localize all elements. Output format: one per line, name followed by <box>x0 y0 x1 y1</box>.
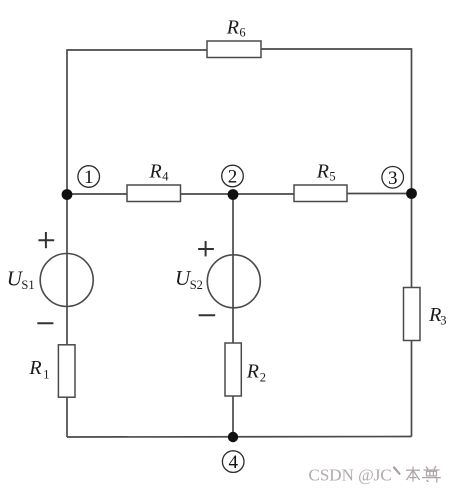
resistor R4 <box>127 160 181 201</box>
junction node 3 <box>406 188 417 199</box>
watermark CSDN @JC丶本尊 <box>309 466 392 485</box>
svg-text:S1: S1 <box>21 278 34 292</box>
junction node 4 <box>228 432 238 442</box>
wire middle bus R4-node2 <box>181 193 295 195</box>
resistor R5 <box>294 160 347 201</box>
svg-text:CSDN @JC: CSDN @JC <box>309 466 392 485</box>
wire left branch node1 to bottom <box>66 194 68 437</box>
junction node 2 <box>228 189 239 200</box>
resistor R1 <box>28 345 75 397</box>
wire middle bus R5-node3 <box>347 193 412 195</box>
svg-text:4: 4 <box>162 170 169 184</box>
resistor R3 <box>404 288 447 341</box>
svg-text:2: 2 <box>260 370 266 384</box>
node 3 label <box>382 167 404 189</box>
wire top right from R6 to node 3 <box>261 49 412 194</box>
svg-text:1: 1 <box>43 367 49 381</box>
US2 plus <box>198 241 214 256</box>
wire top from node 1 up and across to R6 <box>67 50 207 194</box>
junction node 1 <box>62 189 73 200</box>
svg-text:R: R <box>149 160 162 182</box>
US1 minus <box>37 322 53 324</box>
resistor R6 <box>207 16 261 57</box>
US1 plus <box>38 232 54 248</box>
svg-text:3: 3 <box>440 314 446 328</box>
node 4 label <box>222 451 244 473</box>
US2 minus <box>199 314 216 316</box>
voltage source US1 <box>7 254 93 307</box>
svg-text:1: 1 <box>84 167 94 188</box>
wire bottom <box>67 436 412 439</box>
svg-text:5: 5 <box>329 170 335 184</box>
svg-text:R: R <box>316 160 329 182</box>
svg-text:2: 2 <box>228 167 238 188</box>
node 1 label <box>78 166 100 188</box>
svg-text:6: 6 <box>239 26 245 40</box>
svg-text:R: R <box>246 360 259 382</box>
svg-text:4: 4 <box>228 452 238 473</box>
wire middle bus node1-R4 <box>67 193 127 195</box>
voltage source US2 <box>175 255 260 308</box>
svg-text:R: R <box>226 16 239 38</box>
wire right branch node3 to bottom <box>411 194 413 437</box>
node 2 label <box>222 165 244 187</box>
resistor R2 <box>225 343 266 396</box>
wire middle branch node2 to bottom <box>232 194 234 437</box>
svg-text:R: R <box>28 357 41 379</box>
svg-text:S2: S2 <box>190 278 203 292</box>
svg-text:3: 3 <box>388 168 398 189</box>
